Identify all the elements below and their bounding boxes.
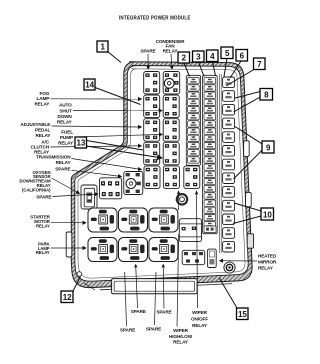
svg-text:MIRROR: MIRROR [258,260,277,265]
svg-text:RELAY: RELAY [35,133,51,138]
svg-text:LAMP: LAMP [36,96,49,101]
svg-text:HEATED: HEATED [258,254,277,259]
svg-text:15: 15 [238,310,247,319]
svg-text:SPARE: SPARE [140,49,155,54]
svg-text:SPARE: SPARE [36,194,51,199]
svg-text:12: 12 [63,293,72,302]
svg-text:SPARE: SPARE [146,327,161,332]
svg-text:ADJUSTABLE: ADJUSTABLE [20,122,50,127]
svg-text:SHUT: SHUT [59,108,72,113]
svg-text:INTEGRATED POWER MODULE: INTEGRATED POWER MODULE [119,16,191,22]
svg-text:WIPER: WIPER [192,310,207,315]
svg-text:4: 4 [210,52,215,61]
svg-text:ON/OFF: ON/OFF [191,316,208,321]
svg-text:10: 10 [263,210,272,219]
svg-text:FUEL: FUEL [61,130,73,135]
svg-text:5: 5 [225,49,230,58]
svg-text:RELAY: RELAY [57,120,73,125]
svg-text:PUMP: PUMP [60,135,73,140]
svg-text:9: 9 [266,143,271,152]
svg-text:SPARE: SPARE [131,309,146,314]
svg-text:RELAY: RELAY [192,323,208,328]
svg-text:2: 2 [182,54,187,63]
svg-text:TRANSMISSION: TRANSMISSION [36,155,71,160]
svg-text:RELAY: RELAY [56,160,72,165]
svg-text:RELAY: RELAY [34,102,50,107]
svg-text:PEDAL: PEDAL [35,128,51,133]
svg-text:14: 14 [85,81,94,90]
svg-text:FOG: FOG [40,91,50,96]
svg-text:RELAY: RELAY [36,250,50,255]
svg-text:6: 6 [240,52,245,61]
svg-text:RELAY: RELAY [163,48,179,53]
svg-text:SPARE: SPARE [156,310,171,315]
svg-text:HIGH/LOW: HIGH/LOW [169,334,193,339]
svg-text:RELAY: RELAY [173,339,189,344]
svg-text:RELAY: RELAY [36,223,50,228]
svg-text:DOWN: DOWN [57,114,72,119]
svg-text:AUTO: AUTO [59,103,72,108]
svg-text:3: 3 [196,53,201,62]
svg-text:RELAY: RELAY [58,141,74,146]
svg-text:1: 1 [100,43,105,52]
svg-text:7: 7 [257,60,262,69]
svg-text:(CALIFORNIA): (CALIFORNIA) [22,187,51,192]
svg-text:SPARE: SPARE [120,327,135,332]
svg-text:8: 8 [264,91,269,100]
svg-text:WIPER: WIPER [173,328,188,333]
svg-text:SPARE: SPARE [55,166,70,171]
svg-text:13: 13 [76,139,85,148]
svg-text:RELAY: RELAY [258,266,274,271]
